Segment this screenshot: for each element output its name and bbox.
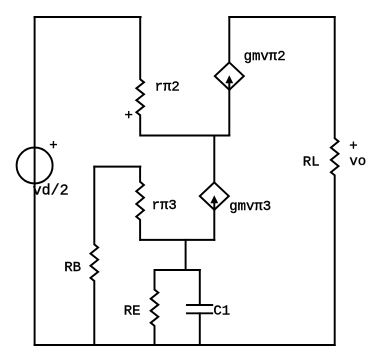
arrow gmvpi2 (225, 75, 233, 90)
svg-text:RL: RL (303, 155, 320, 171)
svg-text:gmvπ3: gmvπ3 (229, 199, 271, 215)
wire RE C1 top (155, 269, 200, 271)
svg-text:+: + (49, 138, 57, 154)
svg-text:vo: vo (349, 154, 366, 170)
resistor RB (91, 167, 99, 345)
wire gmvpi2 top lead (228, 17, 230, 62)
svg-text:+: + (125, 108, 133, 124)
wire rpi2 bottom to gmvpi2 (141, 135, 230, 137)
svg-text:RB: RB (64, 260, 81, 276)
svg-text:gmvπ2: gmvπ2 (244, 49, 286, 65)
svg-text:vd/2: vd/2 (33, 182, 69, 199)
arrow gmvpi3 (210, 195, 218, 210)
wire top left (35, 16, 141, 18)
capacitor C1 (187, 270, 212, 345)
wire second stage top (94, 166, 140, 168)
wire gmvpi2 bottom lead (228, 90, 230, 136)
wire gmvpi3 bottom lead (213, 210, 215, 240)
wire bottom (35, 344, 335, 346)
svg-text:rπ2: rπ2 (155, 79, 180, 95)
resistor RL (331, 17, 339, 345)
svg-text:+: + (349, 139, 357, 155)
resistor RE (151, 270, 159, 345)
svg-text:C1: C1 (213, 303, 230, 319)
resistor rpi3 (136, 167, 144, 240)
svg-text:RE: RE (124, 304, 141, 320)
wire junction to gmvpi3 top (213, 136, 215, 183)
resistor rpi2 (136, 17, 144, 136)
wire rpi3 bottom row (140, 239, 214, 241)
wire top right (229, 16, 334, 18)
wire left vertical (34, 17, 36, 345)
current source gmvpi3 (200, 182, 229, 209)
svg-text:rπ3: rπ3 (152, 198, 177, 214)
current source gmvpi2 (215, 62, 244, 89)
voltage source vd/2 (17, 148, 53, 184)
wire stub to RE/C1 (185, 240, 187, 270)
